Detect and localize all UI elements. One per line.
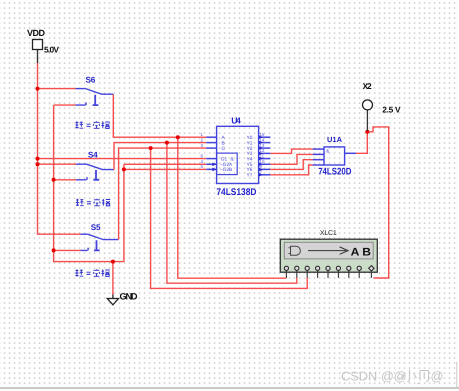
svg-text:VDD: VDD: [27, 28, 46, 38]
logic converter XLC1: [280, 230, 377, 278]
probe X2: [363, 81, 402, 131]
svg-text:CSDN @@: CSDN @@: [341, 369, 407, 384]
pin B stub: [206, 142, 216, 144]
wire C branch to XLC1 terminal 3: [151, 148, 308, 288]
wire jog from junction to XLC1 output terminal: [367, 127, 388, 278]
wire A branch to XLC1 terminal 1: [178, 137, 287, 278]
switch S5: [54, 223, 119, 251]
label S6 key=space: [75, 121, 109, 128]
IC U4 74LS138D decoder: [201, 115, 271, 198]
svg-text:Y4: Y4: [247, 156, 253, 162]
svg-text:Y1: Y1: [247, 140, 253, 146]
wire S4 pole to U4 pin B: [114, 143, 206, 170]
node probe junction: [365, 130, 369, 134]
node S4 top throw junction on VDD rail: [36, 162, 40, 166]
wire Y7 to U1A in4: [270, 165, 312, 175]
svg-text:S6: S6: [86, 76, 96, 85]
label S5 key=space: [75, 269, 109, 276]
border right: [456, 362, 458, 388]
border bottom: [0, 387, 459, 389]
svg-text:11: 11: [260, 153, 265, 158]
pin numbers left: [201, 132, 204, 169]
svg-text:U1A: U1A: [327, 135, 343, 144]
svg-text:S5: S5: [91, 223, 101, 232]
wire Y5 to U1A in2: [270, 154, 312, 164]
gate U1A 74LS20D NAND: [313, 135, 357, 178]
node C branch junction: [149, 146, 153, 150]
pin names: [220, 135, 253, 179]
wire GND rail vertical: [54, 105, 124, 262]
svg-text:5.0V: 5.0V: [44, 45, 59, 55]
svg-text:XLC1: XLC1: [320, 230, 337, 237]
svg-text:13: 13: [260, 143, 265, 148]
svg-text:2.5 V: 2.5 V: [382, 105, 401, 115]
pin C stub: [206, 147, 216, 149]
switch S6: [38, 76, 114, 106]
node B branch junction: [165, 141, 169, 145]
svg-text:~G2B: ~G2B: [220, 167, 232, 173]
svg-text:Y0: Y0: [247, 135, 253, 141]
node G1 junction on VDD rail: [36, 157, 40, 161]
wire G2B branch from GND rail to U4 pin 5: [124, 168, 206, 170]
svg-text:@: @: [431, 369, 444, 384]
svg-text:X2: X2: [363, 81, 373, 91]
wire Y3 to U1A in1: [270, 149, 312, 153]
pin A stub: [206, 136, 216, 138]
svg-text:Y7: Y7: [247, 173, 253, 179]
wire VDD rail vertical: [38, 50, 81, 235]
node S6 top throw junction on VDD rail: [36, 87, 40, 91]
terminals: [284, 266, 374, 271]
svg-text:15: 15: [260, 132, 265, 137]
svg-text:74LS138D: 74LS138D: [216, 187, 256, 198]
wire S6 pole to U4 pin A: [113, 94, 206, 137]
wire GND drop: [112, 262, 114, 295]
wire U1A output to probe junction: [356, 132, 367, 154]
label S4 key=space: [76, 199, 110, 206]
pin G2A stub with arrow: [206, 163, 216, 165]
switch S4: [38, 151, 115, 180]
svg-text:B: B: [222, 140, 225, 146]
pin numbers right: [260, 132, 265, 175]
svg-text:GND: GND: [120, 292, 138, 302]
node G2B branch junction: [122, 167, 126, 171]
svg-text:U4: U4: [231, 115, 241, 125]
node A branch junction: [176, 135, 180, 139]
svg-text:Y3: Y3: [247, 151, 253, 157]
node GND junction: [111, 260, 115, 264]
wire G2A from GND rail to U4 pin 4: [124, 163, 206, 165]
ground: [107, 292, 138, 305]
svg-text:A B: A B: [351, 247, 371, 259]
svg-text:Y5: Y5: [247, 162, 253, 168]
svg-text:74LS20D: 74LS20D: [318, 167, 351, 178]
node S5 bottom throw junction on GND rail: [52, 248, 56, 252]
terminal stubs: [286, 271, 371, 278]
svg-text:S4: S4: [88, 151, 98, 160]
svg-text:14: 14: [260, 137, 265, 142]
power VDD: [27, 28, 59, 55]
svg-text:~G2A: ~G2A: [220, 162, 233, 168]
wire Y6 to U1A in3: [270, 160, 312, 170]
wire G1 from VDD rail to U4 pin 6: [38, 158, 207, 160]
watermark: [341, 369, 444, 385]
pin G1 stub: [206, 158, 216, 160]
wire S5 pole to U4 pin C: [119, 148, 207, 240]
wire B branch to XLC1 terminal 2: [167, 143, 297, 284]
pin G2B stub with arrow: [206, 168, 216, 170]
svg-text:Y6: Y6: [247, 167, 253, 173]
svg-text:G1: G1: [221, 156, 228, 162]
svg-text:C: C: [222, 146, 226, 152]
Y output stubs with arrows: [259, 137, 271, 175]
node S4 bottom throw junction on GND rail: [52, 178, 56, 182]
svg-text:Y2: Y2: [247, 146, 253, 152]
